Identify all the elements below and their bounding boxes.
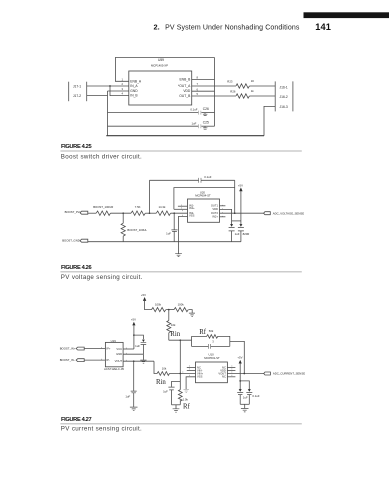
wire bypass branch <box>240 381 249 391</box>
svg-text:IN1+: IN1+ <box>189 206 195 210</box>
junction inverting node top <box>179 339 181 341</box>
svg-text:R26: R26 <box>230 90 236 94</box>
svg-text:IN_A: IN_A <box>130 84 138 88</box>
junction VOUT filter <box>133 360 135 362</box>
wire J17-1 to IN_A <box>87 85 129 87</box>
wire GND U19 <box>123 353 143 355</box>
ground symbol bypass U10 <box>241 409 249 412</box>
wire bypass bottom rail <box>240 403 249 405</box>
svg-text:J16-2: J16-2 <box>280 95 288 99</box>
svg-text:0.1uF: 0.1uF <box>190 108 197 112</box>
wire cap to ground rail <box>173 232 175 242</box>
svg-text:PV current sensing circuit.: PV current sensing circuit. <box>61 426 142 433</box>
ground rail <box>106 135 264 137</box>
svg-text:141: 141 <box>315 22 331 32</box>
svg-text:C25: C25 <box>203 120 209 124</box>
wire VDD vertical <box>214 58 216 127</box>
wire VOUT <box>123 360 154 362</box>
svg-text:OUT1: OUT1 <box>211 204 219 208</box>
junction inverting input <box>179 373 181 375</box>
wire J16-3 to ground rail <box>264 106 275 135</box>
svg-text:820R: 820R <box>243 232 250 236</box>
op-amp driver U59 box <box>129 71 192 105</box>
wire divider mid <box>166 309 174 311</box>
wire RC bottom join <box>172 404 181 406</box>
svg-text:J16-3: J16-3 <box>280 105 288 109</box>
svg-text:0.1uF: 0.1uF <box>252 394 259 398</box>
wire loop to output <box>230 341 245 373</box>
resistor R23 <box>236 84 249 88</box>
ground stub U19 <box>142 354 144 360</box>
junction +5V bypass <box>133 334 135 336</box>
svg-text:Rin: Rin <box>156 379 166 386</box>
svg-text:GND: GND <box>130 89 138 93</box>
svg-text:2.: 2. <box>154 23 160 32</box>
junction output feedback U10 <box>243 373 245 375</box>
svg-text:+5V: +5V <box>141 293 146 297</box>
feedback Rf parallel box left <box>191 336 193 346</box>
svg-text:FIGURE 4.26: FIGURE 4.26 <box>61 265 91 271</box>
VDD bypass rail 1 <box>108 112 199 114</box>
feedback Rf parallel box right <box>229 336 231 346</box>
caption rule 4.25 <box>60 150 301 152</box>
svg-text:100k: 100k <box>155 302 162 306</box>
svg-text:ENB_B: ENB_B <box>179 78 191 82</box>
wire RC split left <box>172 382 181 387</box>
svg-text:+5V: +5V <box>131 318 136 322</box>
feedback loop top wire left segment <box>150 179 199 181</box>
svg-text:BOOST_IN+: BOOST_IN+ <box>60 347 76 351</box>
node BOOST_PV+ tag <box>80 211 88 214</box>
wire pin4 stub with ground drop <box>179 216 188 253</box>
svg-text:VDD: VDD <box>183 89 191 93</box>
ground stub RC <box>175 405 177 409</box>
feedback top branch with resistor Rf <box>192 335 231 339</box>
svg-text:GND: GND <box>116 352 122 356</box>
svg-text:U59: U59 <box>158 58 164 62</box>
resistor RC vertical <box>178 382 182 405</box>
filter cap VOUT plates <box>131 391 137 393</box>
ground symbol U19 <box>140 360 146 363</box>
svg-text:Rin: Rin <box>170 331 180 338</box>
node BOOST_GND tag <box>80 239 88 242</box>
svg-text:14.3k: 14.3k <box>159 205 166 209</box>
svg-text:FIGURE 4.27: FIGURE 4.27 <box>61 417 91 423</box>
svg-text:0.1uF: 0.1uF <box>204 175 211 179</box>
svg-text:ADC_CURRENT_SENSE: ADC_CURRENT_SENSE <box>273 372 305 376</box>
bypass cap U19 polarized <box>142 340 145 343</box>
pin ticks U10 <box>183 366 232 376</box>
svg-text:VDD: VDD <box>212 207 218 211</box>
junction output feedback <box>234 212 236 214</box>
wire Rin to op-amp <box>170 373 196 375</box>
power +5V arrow U19 <box>132 322 135 326</box>
capacitor C26 plates <box>198 111 200 115</box>
svg-text:ACS712ELC-05: ACS712ELC-05 <box>104 367 124 371</box>
wire U10 right stubs <box>227 367 235 369</box>
junction feedback cap tap <box>149 212 151 214</box>
svg-text:+5V: +5V <box>238 183 243 187</box>
svg-text:10k: 10k <box>162 367 167 371</box>
junction bypass U10 <box>239 380 241 382</box>
wire VCC to +5V <box>123 348 134 350</box>
svg-text:1uF: 1uF <box>166 231 171 235</box>
svg-text:C26: C26 <box>203 107 209 111</box>
svg-text:1.0k: 1.0k <box>183 397 189 401</box>
svg-text:FIGURE 4.25: FIGURE 4.25 <box>61 144 91 150</box>
resistor 14.3k <box>156 211 170 215</box>
svg-text:1uF: 1uF <box>135 344 140 348</box>
power +5V arrow U10 <box>239 360 242 364</box>
wire inverting input row <box>174 208 188 210</box>
feedback bottom branch with capacitor <box>192 345 230 347</box>
svg-text:U19: U19 <box>111 339 117 343</box>
wire ENB_A top loop <box>115 58 214 82</box>
resistor R26 <box>236 94 249 98</box>
svg-text:BOOST_100UL: BOOST_100UL <box>127 228 147 232</box>
svg-text:1uF: 1uF <box>125 394 130 398</box>
wire GND vertical down <box>107 91 109 136</box>
resistor 100k upper right <box>174 308 188 312</box>
svg-text:VCC: VCC <box>116 347 122 351</box>
wire VOUT down to Rin <box>154 361 157 373</box>
bypass cap C polarized <box>239 389 242 392</box>
junction input node <box>173 212 175 214</box>
wire R23 to J16-1 <box>249 85 275 87</box>
wire BOOST_IN- to U19 <box>84 359 105 361</box>
power +5V vertical U10 <box>239 363 241 391</box>
svg-text:+5V: +5V <box>237 356 242 360</box>
ground mark at C26 <box>203 113 208 116</box>
wire input node to cap <box>173 213 175 230</box>
svg-text:MCP601-ST: MCP601-ST <box>204 356 220 360</box>
capacitor 0.1uF plates <box>199 178 201 183</box>
caption rule 4.26 <box>60 271 301 273</box>
svg-text:50k: 50k <box>209 329 214 333</box>
wire drop to inverting input <box>179 340 181 373</box>
connector J16 bar right <box>292 81 294 111</box>
wire U10 pin2 stub <box>187 369 196 371</box>
capacitor 1uF input plates <box>171 230 177 232</box>
junction divider tap <box>122 212 124 214</box>
wire GND pin3 <box>108 90 129 92</box>
svg-text:BOOST_GND: BOOST_GND <box>62 239 80 243</box>
wire VDD pin to VDD net <box>192 90 215 92</box>
wire VOUT filter cap drop <box>133 361 135 391</box>
svg-text:VSS: VSS <box>197 375 203 379</box>
power +5V arrow <box>239 187 242 191</box>
svg-text:J17-1: J17-1 <box>73 85 81 89</box>
ground symbol RC <box>173 409 180 412</box>
resistor Rin input <box>157 372 169 376</box>
wire R26 to J16-2 <box>249 95 275 97</box>
wire inverting node to RC ground leg <box>179 374 181 382</box>
svg-text:OUT_B: OUT_B <box>179 94 191 98</box>
svg-text:IP+: IP+ <box>106 347 111 351</box>
svg-text:IP-: IP- <box>106 358 110 362</box>
wire R to junction <box>111 212 132 214</box>
output tag ADC_CURRENT_SENSE <box>264 372 271 375</box>
VDD bypass rail 2 <box>108 125 199 127</box>
svg-text:MCP604-ST: MCP604-ST <box>195 194 211 198</box>
power +5V vertical U19 <box>133 325 135 349</box>
svg-text:PV voltage sensing circuit.: PV voltage sensing circuit. <box>61 274 143 281</box>
svg-text:1K: 1K <box>251 79 255 83</box>
op-amp U20 box <box>188 199 220 222</box>
resistor 100k upper left <box>152 308 166 312</box>
wire tag to R series 1 <box>88 212 96 214</box>
wire output row <box>220 212 265 214</box>
ground symbol below op-amp <box>175 254 182 257</box>
wire output row to tag <box>227 373 264 375</box>
output tag ADC_VOLTAGE_SENSE <box>264 212 271 215</box>
svg-text:IN_B: IN_B <box>130 94 138 98</box>
pin ticks U19 <box>101 347 126 361</box>
power +5V arrow top <box>143 297 146 301</box>
wire BOOST_IN+ to U19 <box>84 348 105 350</box>
op-amp U10 box <box>196 362 228 383</box>
svg-text:10k: 10k <box>171 323 176 327</box>
inner feedback box top <box>174 188 235 210</box>
wire IN_A branch down to IN_B <box>110 86 129 96</box>
svg-text:1uF: 1uF <box>235 232 240 236</box>
svg-text:IN2+: IN2+ <box>212 215 218 219</box>
capacitor C25 plates <box>198 124 200 128</box>
connector J16 bar left <box>274 81 276 111</box>
wire bias to loop <box>169 339 192 341</box>
wire VDD row to bypass <box>220 209 232 225</box>
bypass cap A polarized <box>230 224 233 227</box>
pin number ticks right U20 <box>222 205 224 217</box>
wire pin A stub <box>178 205 188 207</box>
svg-text:R23: R23 <box>227 79 233 83</box>
svg-text:VOUT: VOUT <box>115 359 123 363</box>
ground stub bypass <box>244 404 246 408</box>
capacitor RC plates <box>168 387 174 390</box>
svg-text:1uF: 1uF <box>243 395 248 399</box>
svg-text:ENB_A: ENB_A <box>130 79 142 83</box>
svg-text:OUT2: OUT2 <box>211 211 219 215</box>
connector J17 bar right <box>86 82 88 102</box>
svg-text:100k: 100k <box>178 302 185 306</box>
node BOOST_IN+ tag <box>76 347 84 350</box>
bypass cap D polarized <box>248 389 251 392</box>
tie wire between bypass caps <box>232 220 241 222</box>
svg-text:MCP1405-XP: MCP1405-XP <box>151 64 168 68</box>
power +5V drop to divider <box>145 301 152 310</box>
caption rule 4.27 <box>60 423 301 425</box>
feedback capacitor loop left vertical <box>149 180 151 213</box>
ground mark at C25 <box>203 126 208 129</box>
wire ENB_B to VDD net <box>192 79 215 81</box>
ground rail fig426 <box>88 241 241 243</box>
junction on IN_A wire <box>109 85 111 87</box>
ground symbol gray U10 <box>184 390 189 393</box>
wire to ground divider <box>189 310 193 313</box>
svg-text:Boost switch driver circuit.: Boost switch driver circuit. <box>61 153 142 160</box>
svg-text:ADC_VOLTAGE_SENSE: ADC_VOLTAGE_SENSE <box>273 211 304 215</box>
wire 14.3k to op-amp input <box>171 212 188 214</box>
ground symbol divider <box>189 313 195 317</box>
wire U10 pin4 stub and ground <box>186 377 195 390</box>
ground symbol VOUT <box>130 407 138 411</box>
svg-text:VSS: VSS <box>189 214 195 218</box>
resistor 7.5K <box>131 211 145 215</box>
svg-text:7.5K: 7.5K <box>135 205 141 209</box>
current sensor U19 box <box>105 342 123 366</box>
svg-text:Rf: Rf <box>199 329 207 336</box>
feedback loop top wire right segment <box>201 179 235 181</box>
node BOOST_IN- tag <box>76 359 84 362</box>
wire U10 pin1 stub <box>187 367 196 369</box>
connector J17 bar left <box>68 82 70 102</box>
wire OUT_A to R23 <box>192 85 236 87</box>
resistor Rin bias vertical <box>167 310 171 341</box>
power +5V vertical <box>240 191 242 225</box>
resistor BOOST divider upper <box>96 211 110 215</box>
pin number ticks left U20 <box>182 205 183 216</box>
svg-text:BOOST_IN-: BOOST_IN- <box>60 358 75 362</box>
svg-text:BOOST_100UR: BOOST_100UR <box>93 205 113 209</box>
bypass cap B polarized <box>239 224 242 227</box>
wire J17-2 stub <box>87 95 108 97</box>
wire OUT_B to R26 <box>192 95 236 97</box>
junction divider mid <box>168 309 170 311</box>
svg-text:J17-2: J17-2 <box>73 94 81 98</box>
svg-text:Rf: Rf <box>183 403 191 410</box>
svg-text:1uF: 1uF <box>191 121 196 125</box>
svg-text:BOOST_PV+: BOOST_PV+ <box>65 210 82 214</box>
wire 7.5K to 14.3k <box>145 212 156 214</box>
header black bar <box>304 12 389 18</box>
svg-text:*OUT_A: *OUT_A <box>178 84 191 88</box>
wire pin4 stub right <box>220 216 226 218</box>
wire to bypass cap U19 <box>134 335 144 339</box>
feedback right vertical <box>234 180 236 213</box>
svg-text:PV System Under Nonshading Con: PV System Under Nonshading Conditions <box>165 25 300 32</box>
wire pin1 stub right <box>220 205 226 207</box>
divider lower resistor <box>121 213 125 242</box>
svg-text:J16-1: J16-1 <box>280 86 288 90</box>
wire cap to bottom <box>171 390 173 405</box>
capacitor feedback plates <box>209 344 211 349</box>
svg-text:1uF: 1uF <box>163 390 168 394</box>
svg-text:NC: NC <box>222 375 226 379</box>
